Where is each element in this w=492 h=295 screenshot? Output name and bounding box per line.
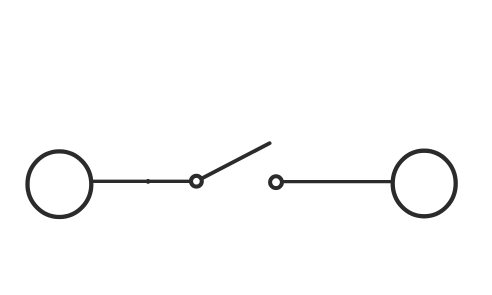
terminal T1 (left circle) [28,151,92,217]
terminal T2 (right circle) [393,151,456,217]
switch SW1 pole contact (small circle) [191,176,202,187]
switch SW1 lever (open blade) [202,143,270,178]
wire W2 (switch throw to right terminal) [276,180,392,183]
switch SW1 throw contact (small circle) [270,176,282,188]
wire W1 (left terminal to switch pole) [93,180,197,183]
junction tick on wire W1 [147,179,150,184]
